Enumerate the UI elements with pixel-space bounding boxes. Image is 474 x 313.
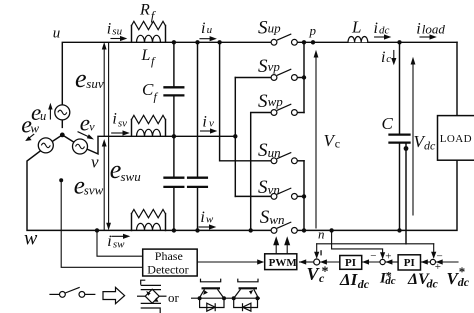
svg-text:w: w — [30, 120, 39, 135]
svg-text:−: − — [370, 250, 376, 262]
svg-text:PI: PI — [404, 257, 415, 269]
svg-text:c: c — [335, 136, 340, 150]
svg-text:i: i — [107, 233, 111, 250]
svg-text:+: + — [385, 250, 391, 262]
svg-text:svw: svw — [84, 182, 104, 197]
svg-text:dc: dc — [385, 275, 396, 287]
svg-text:PI: PI — [345, 257, 356, 269]
svg-text:i: i — [381, 49, 385, 66]
svg-text:w: w — [24, 227, 38, 249]
svg-text:up: up — [268, 20, 282, 35]
svg-text:u: u — [207, 24, 213, 36]
svg-text:dc: dc — [427, 277, 439, 291]
svg-text:p: p — [309, 23, 317, 38]
svg-text:C: C — [142, 80, 154, 99]
svg-text:i: i — [107, 20, 111, 37]
svg-text:v: v — [91, 152, 99, 171]
svg-text:vp: vp — [268, 59, 281, 74]
svg-text:load: load — [422, 22, 446, 37]
svg-text:S: S — [258, 56, 268, 77]
svg-text:Detector: Detector — [147, 262, 188, 276]
svg-text:v: v — [89, 120, 95, 134]
svg-text:w: w — [206, 213, 214, 225]
svg-text:or: or — [168, 290, 180, 305]
svg-text:dc: dc — [379, 25, 390, 37]
svg-text:PWM: PWM — [269, 257, 298, 269]
svg-text:S: S — [258, 17, 268, 38]
svg-text:i: i — [416, 21, 420, 38]
svg-text:vn: vn — [268, 182, 280, 197]
svg-text:u: u — [53, 26, 61, 42]
svg-text:wn: wn — [269, 212, 284, 227]
svg-text:su: su — [112, 26, 122, 38]
svg-text:dc: dc — [458, 275, 470, 289]
svg-text:i: i — [112, 111, 116, 128]
svg-text:v: v — [209, 118, 214, 130]
svg-text:sv: sv — [118, 118, 127, 130]
svg-text:S: S — [258, 177, 268, 198]
svg-text:sw: sw — [113, 238, 125, 250]
svg-text:e: e — [75, 64, 87, 93]
svg-text:R: R — [139, 1, 150, 18]
svg-text:+: + — [435, 261, 441, 273]
svg-text:S: S — [260, 207, 270, 228]
svg-text:wp: wp — [268, 94, 284, 109]
svg-text:S: S — [258, 91, 268, 112]
svg-text:Phase: Phase — [155, 249, 183, 263]
svg-text:i: i — [374, 20, 378, 37]
svg-text:c: c — [386, 53, 391, 65]
svg-text:suv: suv — [86, 76, 104, 91]
svg-text:i: i — [202, 114, 206, 131]
svg-text:L: L — [141, 47, 151, 64]
svg-text:i: i — [201, 20, 205, 37]
svg-text:swu: swu — [121, 169, 142, 184]
svg-text:dc: dc — [358, 277, 370, 291]
svg-text:u: u — [40, 109, 46, 123]
svg-text:un: un — [268, 145, 281, 160]
svg-text:ΔI: ΔI — [339, 270, 359, 289]
svg-text:C: C — [382, 114, 394, 133]
svg-text:LOAD: LOAD — [440, 133, 472, 145]
svg-text:i: i — [200, 209, 204, 226]
svg-text:c: c — [319, 271, 325, 285]
svg-text:S: S — [258, 140, 268, 161]
svg-text:dc: dc — [424, 139, 436, 153]
svg-text:n: n — [318, 227, 325, 242]
svg-text:L: L — [351, 18, 361, 37]
